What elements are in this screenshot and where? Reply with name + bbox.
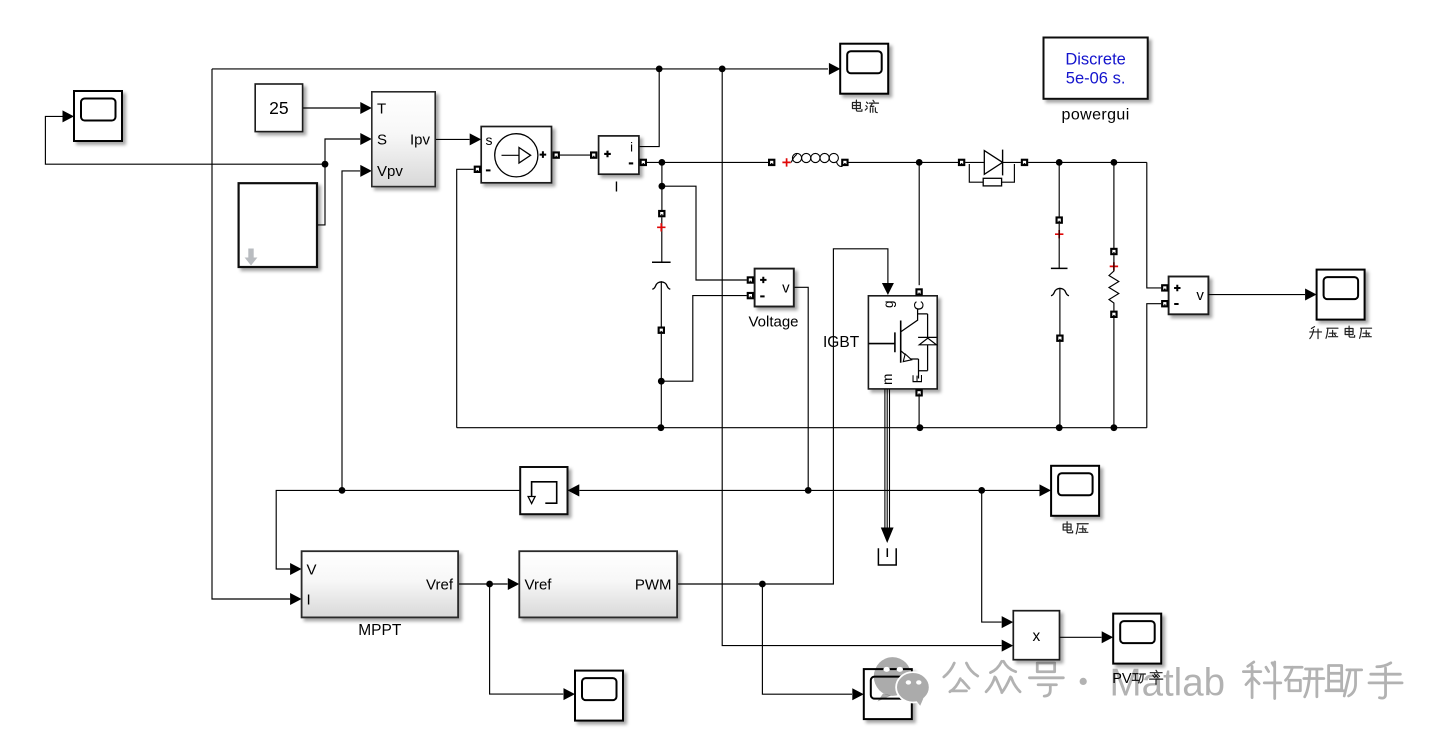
wire: multiply output to PV功率 scope [1060, 636, 1102, 638]
wire: Ipv output to controlled current source s input [435, 138, 469, 140]
transistor Q1 IGBT block [868, 296, 937, 389]
svg-text:Vpv: Vpv [377, 163, 403, 180]
svg-text:MPPT: MPPT [358, 622, 402, 639]
wire: MPPT Vref to PWM [458, 583, 507, 585]
current measurement block I1 [599, 136, 639, 174]
port: V2 + [1161, 284, 1168, 291]
svg-text:5e-06 s.: 5e-06 s. [1066, 70, 1126, 88]
svg-text:powergui: powergui [1062, 107, 1130, 124]
wire: constant 25 to T input [303, 107, 360, 109]
resistor R_load [1113, 162, 1115, 248]
wire: current source + to I meter + [560, 154, 591, 156]
wire: Vref to scope3 [490, 584, 564, 694]
wire: V2 output to 升压电压 scope [1208, 294, 1305, 296]
port: I meter - output [640, 159, 647, 166]
wire: S signal to Scope (top-left) [45, 116, 325, 164]
capacitor C1 (input) plate [652, 261, 671, 263]
scope 电流 [840, 44, 888, 94]
wire: I meter - to main positive rail [647, 161, 768, 163]
wire: Vpv feedback into PV array [342, 171, 360, 491]
wire: IGBT E to bus [918, 396, 920, 427]
memory block M1 [520, 467, 567, 514]
wire: IGBT m measurement output [885, 389, 890, 528]
wire: diode to output node, to V meter + [1028, 162, 1161, 288]
transistor Q1 IGBT symbol [868, 321, 900, 363]
voltage measurement block (input) [755, 269, 794, 307]
MPPT subsystem block [302, 551, 459, 617]
node: junction PWM [759, 581, 766, 588]
node: junction on top bus feeding multiply [719, 66, 726, 73]
port: Voltage + [747, 276, 754, 283]
svg-text:I: I [307, 592, 311, 609]
wire: tap to Voltage meter + [662, 186, 747, 280]
wire: current signal down to multiply lower input [722, 69, 1001, 646]
wire: input cap branch down [661, 162, 663, 210]
port: V2 - [1161, 300, 1168, 307]
wire: tap to Voltage meter - [661, 296, 747, 382]
signal builder block (irradiance source) [239, 183, 317, 267]
wire: input cap to bus [660, 334, 662, 428]
watermark text 公众号 · Matlab科研助手 [944, 663, 978, 692]
wire: PWM to scope2 [762, 584, 852, 694]
node: junction on top bus at i tap [656, 66, 663, 73]
svg-text:Ipv: Ipv [410, 132, 431, 149]
svg-text:Voltage: Voltage [748, 314, 798, 331]
wire: Signal Builder output to S input of PV array [317, 139, 360, 225]
svg-text:S: S [377, 132, 387, 149]
scope 电压 [1051, 466, 1099, 516]
svg-text:IGBT: IGBT [823, 334, 860, 351]
wire: bus up to V meter - [1147, 304, 1161, 428]
wire: input cap lead / symbol leads [661, 217, 663, 262]
powergui block [1044, 38, 1148, 99]
wire: Ipv current signal top bus to 电流 scope [212, 68, 828, 70]
wire: I block i output up to top bus [639, 69, 659, 147]
svg-text:Vref: Vref [525, 577, 553, 594]
svg-text:s: s [486, 132, 493, 148]
scope PV功率 [1113, 614, 1161, 664]
svg-text:T: T [377, 101, 386, 118]
label 升压电压 under boost voltage scope [1310, 327, 1322, 339]
node: bus junction IGBT E [917, 424, 924, 431]
port: Voltage - [747, 292, 754, 299]
wire: current source - down to bottom bus [457, 169, 474, 427]
node: junction to multiply upper input [978, 487, 985, 494]
svg-text:g: g [881, 301, 896, 309]
diode D1 [958, 159, 965, 166]
label: red + input cap [657, 223, 665, 231]
node: junction load R [1111, 159, 1118, 166]
node: junction S signal [322, 161, 329, 168]
PWM subsystem block [519, 551, 677, 617]
node: bus junction input cap [658, 424, 665, 431]
capacitor C1 curved plate [652, 282, 670, 289]
svg-text:Discrete: Discrete [1065, 51, 1126, 69]
constant block 25 [255, 84, 302, 132]
svg-text:PWM: PWM [635, 577, 672, 594]
node: junction rail / input cap [659, 159, 666, 166]
svg-text:Vref: Vref [426, 577, 454, 594]
scope bottom-middle (PWM) [864, 669, 912, 719]
port: current source + output [553, 151, 560, 158]
svg-text:25: 25 [269, 98, 288, 118]
diode D1 snubber RC [969, 164, 1014, 182]
controlled current source U1 [481, 127, 551, 183]
wire: voltage to multiply upper input [982, 490, 1002, 622]
ground terminator for m [878, 548, 896, 565]
node: junction IGBT collector [916, 159, 923, 166]
scope Scope1 (top-left, irradiance) [74, 91, 122, 141]
multiply block [1013, 611, 1059, 660]
port: IGBT C [915, 288, 922, 295]
svg-text:C: C [911, 300, 926, 310]
svg-text:I: I [614, 179, 618, 196]
port: input cap top [658, 210, 665, 217]
port: input cap bottom [658, 327, 665, 334]
voltage measurement block (output) [1169, 277, 1209, 315]
node: bus junction load R [1111, 424, 1118, 431]
watermark wechat logo [874, 657, 930, 706]
port: current source - [474, 166, 481, 173]
svg-text:m: m [880, 374, 895, 385]
svg-text:v: v [782, 280, 790, 297]
wire: memory line (measured V) [580, 489, 1040, 491]
port: I meter + input [590, 151, 597, 158]
node: junction Vpv tap on memory line [339, 487, 346, 494]
wire: IGBT collector up wire [918, 162, 920, 285]
svg-text:Matlab: Matlab [1110, 662, 1226, 705]
port: IGBT E [915, 389, 922, 396]
node: junction Vref [486, 581, 493, 588]
capacitor C2 (output) [1058, 162, 1060, 216]
wire: bottom power bus [457, 427, 1147, 429]
svg-text:E: E [910, 374, 925, 383]
wire: inductor to diode node [849, 161, 959, 163]
node: junction minus tap [658, 378, 665, 385]
svg-text:x: x [1033, 628, 1041, 645]
scope 升压电压 [1317, 270, 1365, 320]
wire: Voltage meter output v down to memory line [794, 287, 808, 490]
wire: input cap lower lead [660, 281, 662, 326]
svg-text:V: V [307, 562, 317, 579]
node: junction at voltage drop [805, 487, 812, 494]
wire: Memory output to MPPT V input [276, 490, 520, 569]
label 电压 under voltage scope [1063, 522, 1072, 533]
node: junction output cap [1056, 159, 1063, 166]
PV array subsystem block [372, 92, 435, 187]
scope bottom-left (Vref) [575, 671, 623, 721]
label 电流 under current scope [852, 100, 861, 111]
svg-text:v: v [1196, 287, 1204, 304]
inductor L1 [768, 159, 775, 166]
wire: current signal down-left to MPPT I input [212, 69, 290, 599]
svg-text:i: i [630, 140, 633, 155]
node: junction voltage tap [659, 183, 666, 190]
node: bus junction output cap [1056, 424, 1063, 431]
wire: PWM output to IGBT gate [677, 249, 888, 584]
